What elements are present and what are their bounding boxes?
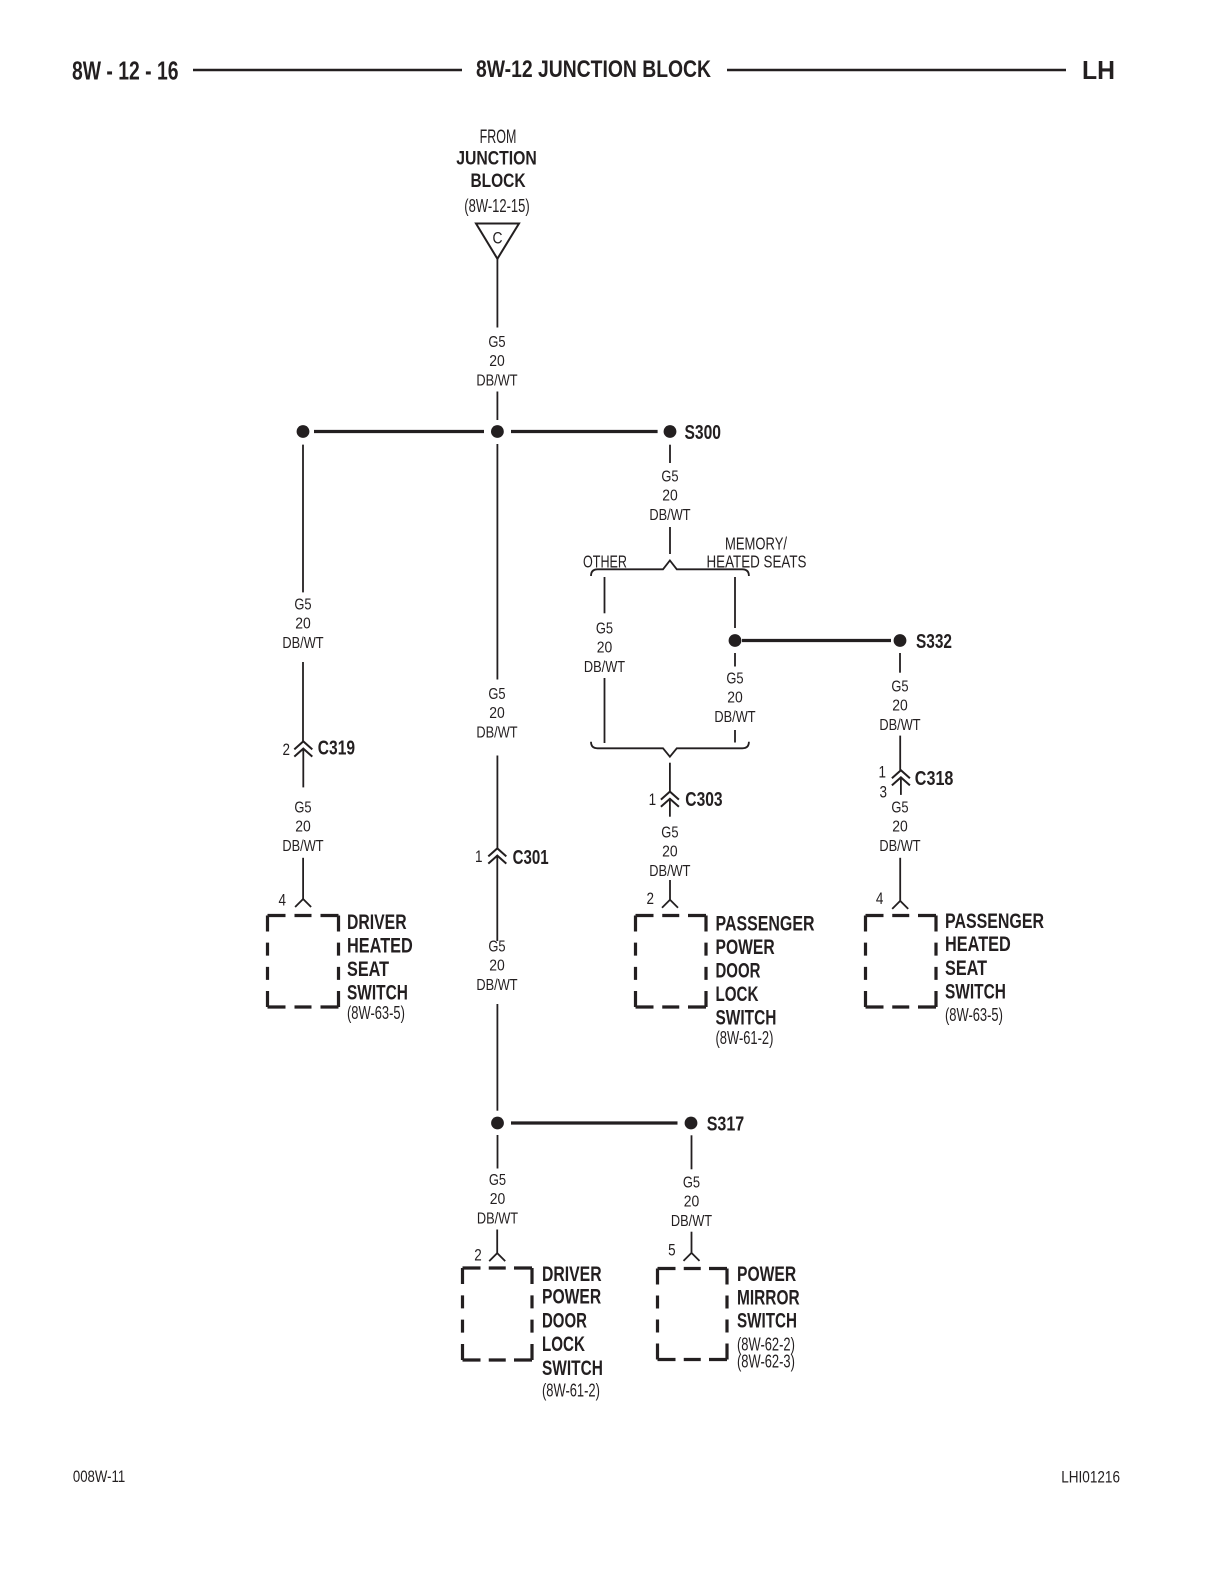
svg-text:G5: G5 <box>488 334 505 351</box>
svg-text:G5: G5 <box>596 621 613 638</box>
wire label center branch upper: circuit G5, gauge 20, color DB/WT <box>476 686 517 742</box>
svg-text:JUNCTION: JUNCTION <box>456 148 537 170</box>
svg-text:DB/WT: DB/WT <box>282 635 323 652</box>
passenger heated seat switch (dashed box) <box>866 916 937 1008</box>
svg-text:S317: S317 <box>707 1113 745 1135</box>
terminal at driver power door lock switch <box>489 1253 497 1261</box>
svg-text:5: 5 <box>668 1241 676 1260</box>
svg-text:S332: S332 <box>916 631 952 653</box>
svg-text:POWER: POWER <box>542 1286 601 1309</box>
svg-text:20: 20 <box>490 1191 506 1208</box>
svg-text:20: 20 <box>892 819 908 836</box>
wire: S332 branch to C318 <box>899 736 901 771</box>
wire: merge to C303 <box>669 763 671 792</box>
wire: S300 bus right segment <box>511 430 658 433</box>
svg-text:DOOR: DOOR <box>716 960 761 983</box>
svg-text:20: 20 <box>662 488 678 505</box>
terminal at driver heated seat switch <box>295 899 303 907</box>
svg-text:DB/WT: DB/WT <box>476 977 517 994</box>
wire: below C319 <box>302 749 304 788</box>
svg-text:SWITCH: SWITCH <box>737 1310 797 1333</box>
svg-text:MEMORY/: MEMORY/ <box>725 534 787 554</box>
svg-text:DB/WT: DB/WT <box>649 507 690 524</box>
svg-text:G5: G5 <box>661 825 678 842</box>
svg-text:DB/WT: DB/WT <box>282 838 323 855</box>
svg-text:1: 1 <box>649 790 657 809</box>
svg-text:SWITCH: SWITCH <box>347 982 408 1005</box>
svg-text:BLOCK: BLOCK <box>470 170 525 192</box>
svg-text:G5: G5 <box>488 939 505 956</box>
wire: memory/heated seats branch <box>734 577 736 628</box>
svg-text:DB/WT: DB/WT <box>477 1211 518 1228</box>
footer: sheet number <box>73 1468 125 1486</box>
connector C303 <box>661 789 723 811</box>
svg-text:C303: C303 <box>685 789 722 811</box>
terminal at power mirror switch <box>684 1253 692 1261</box>
wire: below C303 <box>669 798 671 817</box>
svg-text:G5: G5 <box>489 1172 506 1189</box>
svg-text:G5: G5 <box>661 469 678 486</box>
wire: into passenger power door lock switch <box>669 880 671 900</box>
split brace (wire options) top <box>591 561 749 577</box>
connector C318 <box>892 768 953 790</box>
connector C319 <box>294 737 355 759</box>
wire label S332 branch: circuit G5, gauge 20, color DB/WT <box>879 679 920 735</box>
svg-text:1: 1 <box>879 762 887 781</box>
svg-text:(8W-63-5): (8W-63-5) <box>347 1003 405 1023</box>
wire: down to S317 bus <box>496 1004 498 1111</box>
svg-text:POWER: POWER <box>716 936 775 959</box>
connector C301 <box>488 847 548 869</box>
passenger power door lock switch (dashed box) <box>636 916 707 1008</box>
junction dot: S317 bus left <box>491 1117 504 1130</box>
svg-text:HEATED: HEATED <box>945 933 1011 956</box>
terminal at passenger heated seat switch <box>892 901 900 909</box>
pin 2 of passenger power door lock switch <box>647 889 655 908</box>
pin 5 of power mirror switch <box>668 1241 676 1260</box>
wire: S300 bus left segment <box>314 430 484 433</box>
svg-text:20: 20 <box>295 616 311 633</box>
wire: memory option lower <box>734 730 736 743</box>
pin 2 of C319 <box>283 740 291 759</box>
splice S332 <box>894 631 952 653</box>
driver heated seat switch (dashed box) <box>268 916 339 1008</box>
svg-text:SWITCH: SWITCH <box>542 1357 603 1380</box>
wire: memory junction to S332 <box>742 639 891 642</box>
driver heated seat switch label <box>347 911 413 1023</box>
svg-text:(8W-62-3): (8W-62-3) <box>737 1352 795 1372</box>
wire: into driver power door lock switch <box>496 1230 498 1254</box>
svg-text:SEAT: SEAT <box>347 958 389 981</box>
wire label center branch lower: circuit G5, gauge 20, color DB/WT <box>476 939 517 995</box>
svg-text:4: 4 <box>279 891 287 910</box>
pin 2 of driver power door lock switch <box>474 1245 482 1264</box>
svg-text:DB/WT: DB/WT <box>879 717 920 734</box>
power mirror switch (dashed box) <box>658 1269 728 1360</box>
splice S317 <box>685 1113 745 1135</box>
driver power door lock switch (dashed box) <box>463 1268 533 1360</box>
footer: image code <box>1061 1469 1120 1487</box>
svg-text:20: 20 <box>489 705 505 722</box>
wire: connector C down to label <box>496 259 498 328</box>
svg-text:20: 20 <box>684 1194 700 1211</box>
junction dot: memory branch / S332 takeoff <box>729 634 742 647</box>
svg-text:G5: G5 <box>683 1175 700 1192</box>
pin 3 of C318 <box>880 783 888 802</box>
wire label mirror branch: circuit G5, gauge 20, color DB/WT <box>671 1175 712 1231</box>
svg-text:8W-12 JUNCTION BLOCK: 8W-12 JUNCTION BLOCK <box>476 57 711 83</box>
wire: center branch to C301 <box>496 756 498 849</box>
svg-text:C318: C318 <box>915 768 954 790</box>
svg-text:20: 20 <box>662 844 678 861</box>
svg-text:(8W-63-5): (8W-63-5) <box>945 1005 1003 1025</box>
wire: into driver heated seat switch <box>302 858 304 899</box>
svg-text:DB/WT: DB/WT <box>671 1213 712 1230</box>
wire label memory option: circuit G5, gauge 20, color DB/WT <box>714 671 755 727</box>
svg-text:G5: G5 <box>891 800 908 817</box>
svg-text:4: 4 <box>876 889 884 908</box>
junction dot: center branch <box>491 425 504 438</box>
svg-text:2: 2 <box>647 889 655 908</box>
svg-text:HEATED: HEATED <box>347 935 413 958</box>
wire: other option lower <box>604 678 606 743</box>
page header: section number <box>72 58 179 86</box>
wire: left branch from bus <box>302 445 304 593</box>
svg-text:DB/WT: DB/WT <box>714 709 755 726</box>
wire: S317 bus <box>511 1121 678 1124</box>
pin 1 of C301 <box>475 847 483 866</box>
pin 4 of passenger heated seat switch <box>876 889 884 908</box>
svg-text:SWITCH: SWITCH <box>945 981 1006 1004</box>
driver power door lock switch label <box>542 1263 603 1401</box>
svg-text:8W - 12 - 16: 8W - 12 - 16 <box>72 58 179 86</box>
svg-text:(8W-61-2): (8W-61-2) <box>542 1380 600 1400</box>
svg-text:20: 20 <box>597 640 613 657</box>
page header: LH <box>1082 57 1115 85</box>
wire: below C318 <box>900 777 902 795</box>
svg-text:MIRROR: MIRROR <box>737 1286 800 1309</box>
svg-text:008W-11: 008W-11 <box>73 1468 125 1486</box>
junction dot: left branch takeoff <box>297 425 310 438</box>
svg-text:SEAT: SEAT <box>945 957 987 980</box>
svg-text:(8W-61-2): (8W-61-2) <box>716 1028 774 1048</box>
svg-text:C: C <box>493 229 503 248</box>
wire label C318 lower: circuit G5, gauge 20, color DB/WT <box>879 800 920 856</box>
wire: left branch to C319 <box>302 662 304 741</box>
svg-text:G5: G5 <box>294 597 311 614</box>
svg-text:FROM: FROM <box>480 127 517 148</box>
svg-text:DRIVER: DRIVER <box>347 911 407 934</box>
wire: into passenger heated seat switch <box>899 858 901 901</box>
wire: below C301 <box>496 856 498 941</box>
power mirror switch label <box>737 1263 800 1372</box>
svg-text:LHI01216: LHI01216 <box>1061 1469 1120 1487</box>
wire label left branch lower: circuit G5, gauge 20, color DB/WT <box>282 800 323 856</box>
svg-text:PASSENGER: PASSENGER <box>716 913 815 936</box>
pin 1 of C318 <box>879 762 887 781</box>
svg-text:DB/WT: DB/WT <box>584 659 625 676</box>
svg-text:1: 1 <box>475 847 483 866</box>
svg-text:3: 3 <box>880 783 888 802</box>
wire: below S300 splice <box>669 445 671 463</box>
wire label left branch upper: circuit G5, gauge 20, color DB/WT <box>282 597 323 653</box>
svg-text:G5: G5 <box>488 686 505 703</box>
svg-text:DOOR: DOOR <box>542 1309 587 1332</box>
wire: below memory junction <box>734 653 736 667</box>
svg-text:DB/WT: DB/WT <box>649 863 690 880</box>
svg-text:C319: C319 <box>318 737 355 759</box>
passenger heated seat switch label <box>945 910 1044 1025</box>
wire label other option: circuit G5, gauge 20, color DB/WT <box>584 621 625 677</box>
svg-text:LOCK: LOCK <box>542 1333 585 1356</box>
wire: into power mirror switch <box>691 1232 693 1253</box>
svg-text:LOCK: LOCK <box>716 983 759 1006</box>
wire label driver door lock branch: circuit G5, gauge 20, color DB/WT <box>477 1172 518 1228</box>
off-page connector C (triangle) <box>476 224 519 259</box>
svg-text:DB/WT: DB/WT <box>476 373 517 390</box>
splice S300 <box>664 422 721 444</box>
wire: center branch below bus <box>496 444 498 680</box>
svg-text:DRIVER: DRIVER <box>542 1263 602 1286</box>
wire: below S317 splice <box>691 1135 693 1169</box>
wire label S300 branch: circuit G5, gauge 20, color DB/WT <box>649 469 690 525</box>
wire: OTHER option branch <box>604 577 606 613</box>
wire: below S317 bus left <box>497 1135 499 1169</box>
svg-text:2: 2 <box>283 740 291 759</box>
svg-text:POWER: POWER <box>737 1263 796 1286</box>
svg-text:C301: C301 <box>513 847 549 869</box>
merge brace (wire options) bottom <box>591 742 749 757</box>
header rule right <box>727 69 1066 72</box>
svg-text:DB/WT: DB/WT <box>476 725 517 742</box>
svg-text:2: 2 <box>474 1245 482 1264</box>
svg-text:20: 20 <box>489 353 505 370</box>
wire: to split brace <box>669 527 671 554</box>
branch option label MEMORY/HEATED SEATS <box>707 534 807 572</box>
pin 1 of C303 <box>649 790 657 809</box>
svg-text:G5: G5 <box>294 800 311 817</box>
svg-text:S300: S300 <box>685 422 722 444</box>
branch option label OTHER <box>583 552 627 572</box>
svg-text:G5: G5 <box>891 679 908 696</box>
terminal at passenger power door lock switch <box>662 900 670 908</box>
page header: title <box>476 57 711 83</box>
svg-text:(8W-12-15): (8W-12-15) <box>464 196 529 216</box>
from junction block source label (8W-12-15) <box>456 127 537 216</box>
svg-text:20: 20 <box>489 958 505 975</box>
svg-text:SWITCH: SWITCH <box>716 1007 777 1030</box>
pin 4 of driver heated seat switch <box>279 891 287 910</box>
svg-text:20: 20 <box>727 690 743 707</box>
wire label main feed: circuit G5, gauge 20, color DB/WT <box>476 334 517 390</box>
svg-text:20: 20 <box>892 698 908 715</box>
svg-text:PASSENGER: PASSENGER <box>945 910 1044 933</box>
header rule left <box>193 69 462 72</box>
wire label C303 lower: circuit G5, gauge 20, color DB/WT <box>649 825 690 881</box>
svg-text:DB/WT: DB/WT <box>879 838 920 855</box>
svg-text:G5: G5 <box>726 671 743 688</box>
svg-text:20: 20 <box>295 819 311 836</box>
svg-text:LH: LH <box>1082 57 1115 85</box>
wire: label down to S300 bus <box>496 392 498 421</box>
passenger power door lock switch label <box>716 913 815 1049</box>
wire: below S332 <box>899 653 901 673</box>
